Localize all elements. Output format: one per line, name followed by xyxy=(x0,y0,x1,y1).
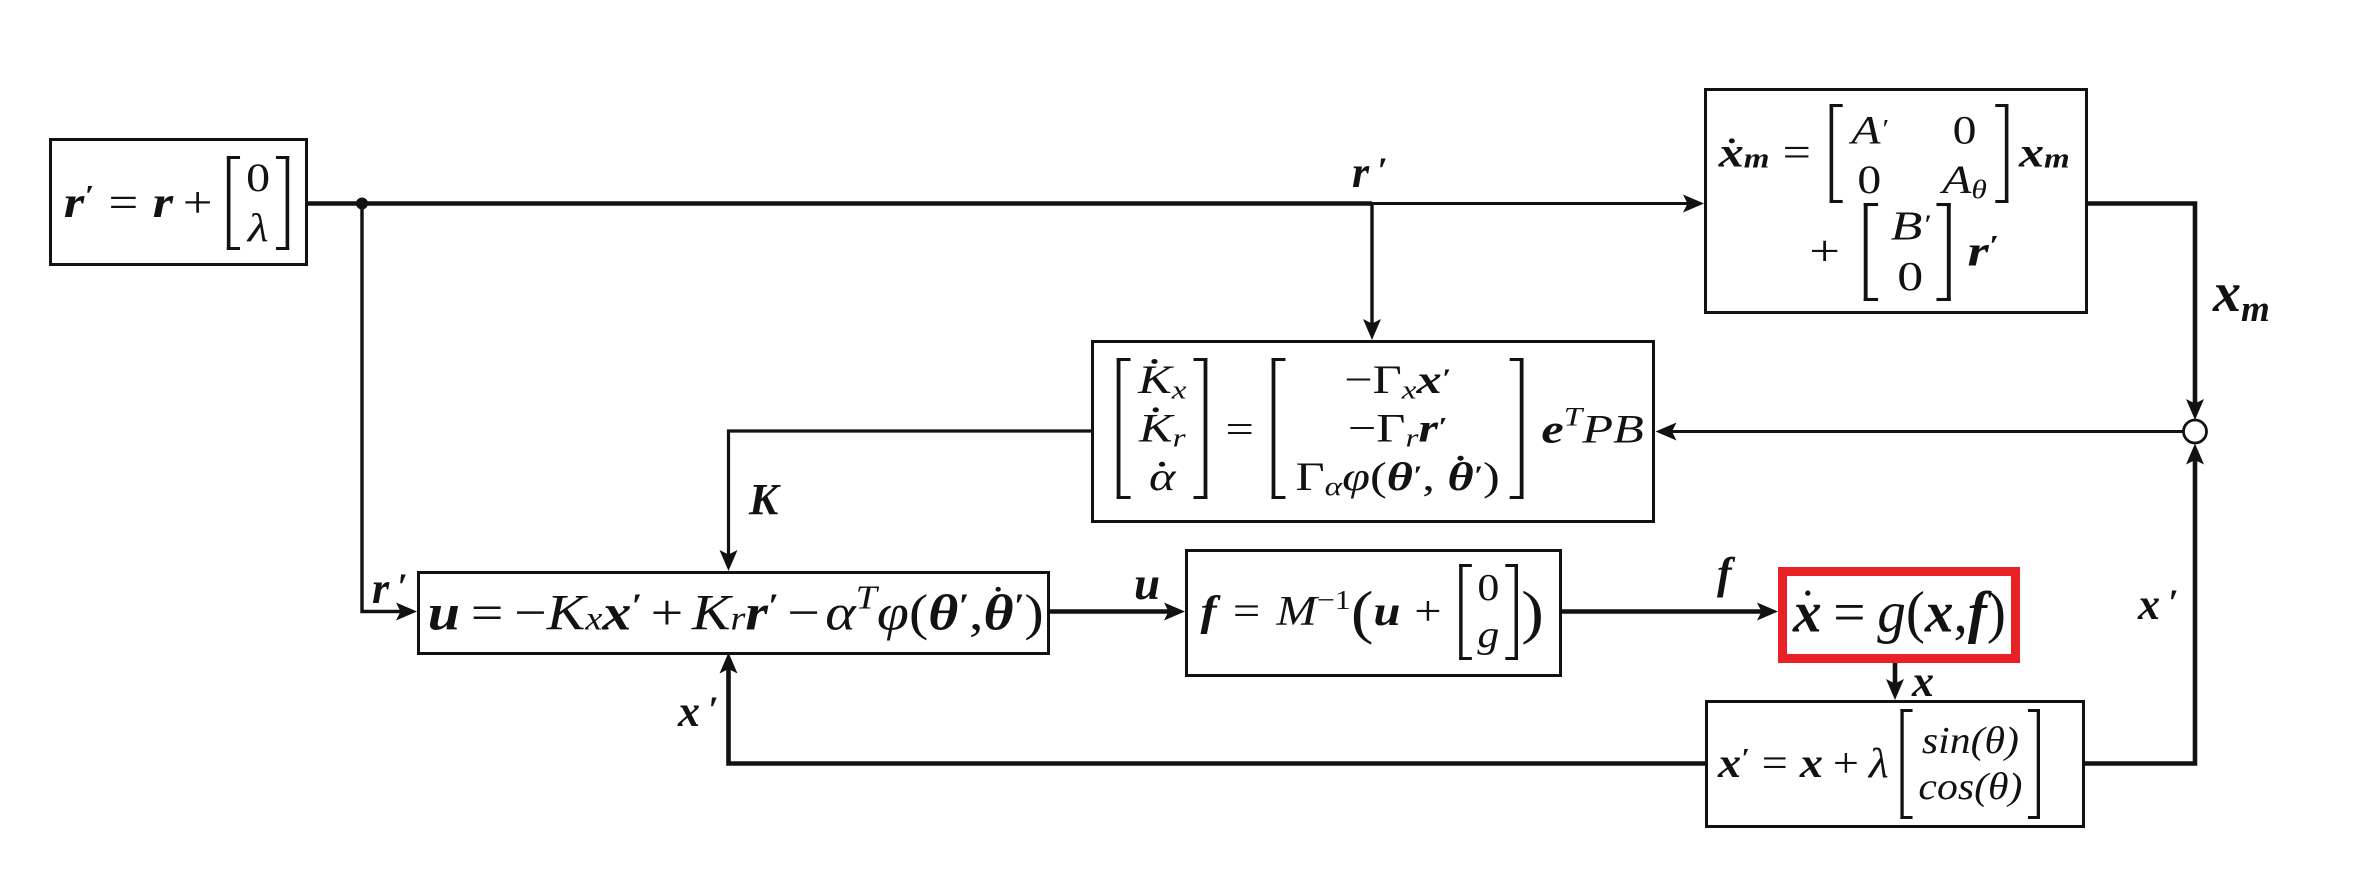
wire: r' to model box xyxy=(1372,202,1692,205)
block: r' = r + [0;lambda] xyxy=(49,138,308,266)
block: f = M^-1(u+[0;g]) xyxy=(1185,549,1562,677)
block: control law u xyxy=(417,571,1050,655)
label x below plant xyxy=(1912,656,1934,707)
label f xyxy=(1717,548,1732,599)
wire: r' down-left to u box xyxy=(362,204,405,612)
label K xyxy=(749,474,778,525)
label x_m right xyxy=(2213,261,2270,325)
node: junction dot xyxy=(356,198,368,210)
wire: x' left up to u box xyxy=(729,664,1706,764)
label x' bottom left xyxy=(678,686,719,737)
wire: f to plant xyxy=(1562,609,1766,614)
node: summing circle xyxy=(2184,420,2207,443)
wire: sum to adaptation box xyxy=(1668,430,2184,433)
wire: r' main horizontal thick xyxy=(308,201,1372,206)
block: reference model xyxy=(1704,88,2088,314)
label u xyxy=(1134,557,1160,611)
label r' top xyxy=(1352,147,1388,198)
wire: x' right up to sum xyxy=(2085,455,2195,764)
wire: r' down to adaptation box xyxy=(1370,204,1373,329)
wire: u to f xyxy=(1050,609,1174,614)
block: plant (red) xyxy=(1778,567,2020,663)
label x' right xyxy=(2138,579,2179,630)
label r' left xyxy=(372,563,408,614)
block: x' output transform xyxy=(1705,700,2085,828)
wire: plant down to x' box xyxy=(1893,662,1898,688)
wire: K feedback xyxy=(729,431,1092,559)
block: adaptation law xyxy=(1091,340,1655,523)
wire: model out right and down to sum xyxy=(2088,204,2195,409)
